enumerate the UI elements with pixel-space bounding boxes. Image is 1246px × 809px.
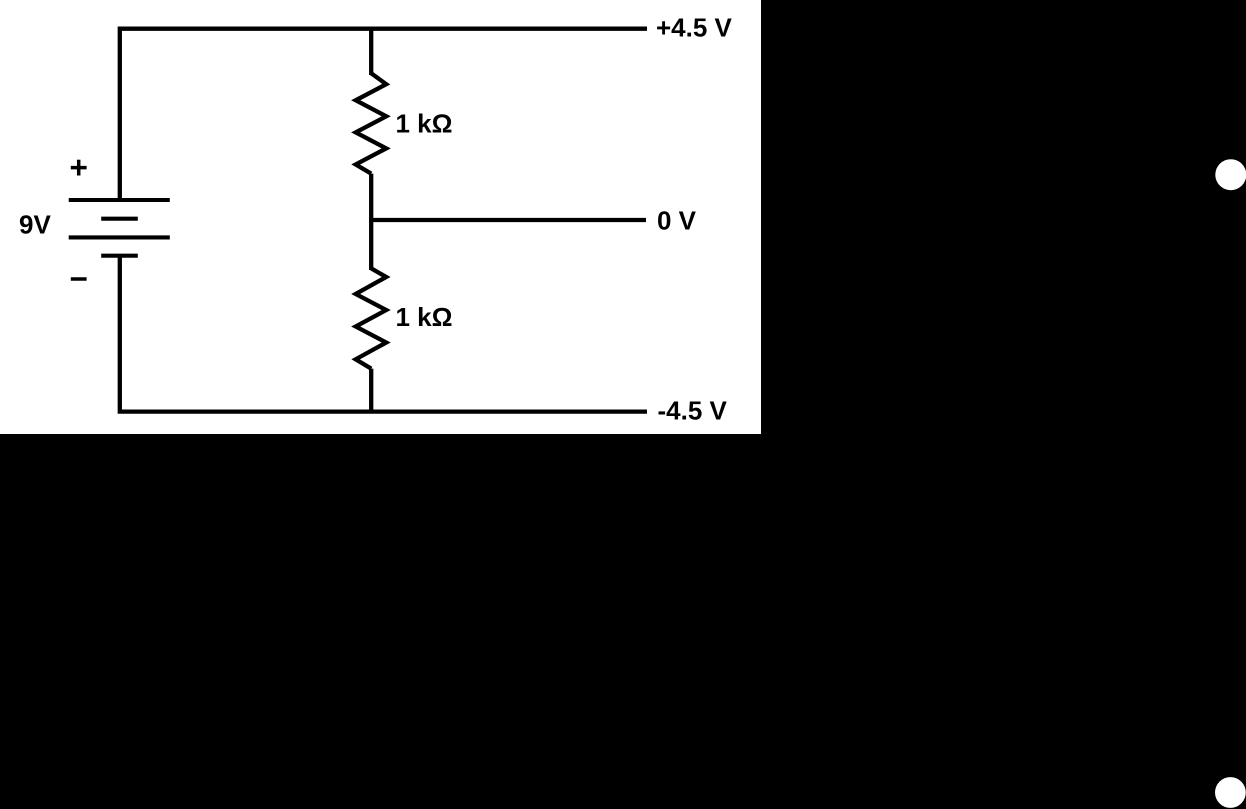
wire: R2 down to bottom rail bbox=[369, 369, 373, 414]
battery minus symbol bbox=[71, 277, 87, 281]
resistor R2 zigzag bbox=[356, 268, 387, 368]
resistor R1 zigzag bbox=[356, 73, 387, 173]
svg-text:1 kΩ: 1 kΩ bbox=[396, 109, 453, 139]
circuit canvas bbox=[0, 0, 761, 434]
svg-text:1 kΩ: 1 kΩ bbox=[396, 302, 453, 332]
wire: middle rail (0 V net) from junction bbox=[369, 218, 646, 222]
wire: R1 to center node junction and down to R2 bbox=[369, 174, 373, 270]
svg-text:-4.5 V: -4.5 V bbox=[658, 395, 728, 425]
battery B1: long plate bbox=[69, 235, 170, 239]
white dot marker lower right bbox=[1215, 777, 1246, 808]
svg-text:9V: 9V bbox=[19, 210, 51, 240]
white dot marker upper right bbox=[1215, 159, 1246, 190]
battery B1: short plate (-) bbox=[101, 254, 138, 258]
battery plus symbol bbox=[71, 160, 87, 176]
battery B1: short plate bbox=[101, 217, 138, 221]
wire: top rail (+4.5 V net) with left vertical drop to battery + terminal bbox=[120, 29, 647, 200]
svg-text:+4.5 V: +4.5 V bbox=[656, 12, 733, 42]
battery B1 9V: long plate (+) bbox=[69, 198, 170, 202]
wire: battery - terminal down and bottom rail (-4.5 V net) bbox=[120, 256, 647, 412]
svg-text:0 V: 0 V bbox=[657, 205, 697, 235]
wire: from top rail down to resistor R1 bbox=[369, 27, 373, 75]
